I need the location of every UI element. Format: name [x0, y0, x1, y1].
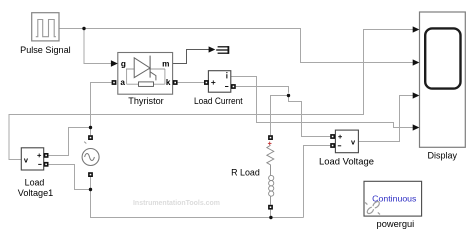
source: AC voltage source [82, 142, 99, 166]
thyristor gate lead [150, 72, 156, 81]
svg-text:powergui: powergui [377, 219, 415, 229]
port: AC source top [88, 135, 93, 140]
thyristor symbol main line [126, 68, 165, 70]
port: Load Voltage - [330, 143, 335, 148]
svg-text:Display: Display [428, 151, 458, 161]
block: Pulse Signal [32, 13, 59, 41]
port: Load Voltage + [330, 134, 335, 139]
thyristor cathode bar [149, 56, 151, 78]
wire: node to R Load top [271, 96, 289, 136]
wire: Load Voltage v output to Display in3 [358, 96, 413, 142]
pin label i [226, 72, 227, 78]
terminator arrow [209, 46, 216, 52]
wire: Load Voltage1 v output to Display in1 [9, 30, 413, 160]
port arrow: Display in2 [413, 59, 420, 65]
svg-text:Load Voltage: Load Voltage [319, 156, 374, 166]
lead between R and L [270, 165, 272, 176]
wire: Load Current - output to node [236, 87, 289, 93]
svg-text:a: a [120, 78, 125, 87]
node: AC bottom junction [89, 188, 92, 191]
svg-text:Load: Load [25, 178, 45, 188]
node: load node junction [287, 94, 290, 97]
thyristor triangle [134, 58, 150, 78]
snubber left stub [126, 69, 128, 84]
inductor coil [269, 175, 274, 196]
snubber right stub [164, 69, 166, 84]
branch: R Load (series RL) [267, 142, 274, 205]
node: rail junction at R Load bottom [269, 216, 272, 219]
wire: Pulse Signal output to junction and on to Display in2 [59, 29, 413, 63]
pin label + [37, 154, 41, 158]
wire: Load Voltage1 - down to AC bottom junction [49, 165, 91, 190]
svg-text:Pulse Signal: Pulse Signal [20, 45, 71, 55]
wire: junction down to thyristor gate [84, 29, 112, 64]
port arrow: thyristor g input [111, 60, 118, 67]
svg-text:m: m [162, 60, 169, 69]
wire: node to Load Voltage + [289, 96, 331, 137]
block: Load Current [208, 71, 230, 93]
red polarity + [268, 142, 272, 146]
wire: thyristor a to AC source top [91, 83, 112, 136]
block: Load Voltage [335, 130, 358, 153]
port: R Load top [268, 135, 273, 140]
wire: thyristor m output to terminator [173, 50, 210, 64]
svg-text:g: g [121, 60, 126, 69]
lead to bottom port [270, 196, 272, 205]
block: Thyristor [118, 53, 173, 95]
resistor zigzag [267, 145, 274, 165]
wire: thyristor k to Load Current + [177, 82, 204, 84]
port: thyristor a [112, 80, 117, 85]
wire: AC source bottom to junction to ground rail [91, 177, 304, 218]
port arrow: Display in4 [413, 124, 420, 130]
wire: Load Current i output to Display in4 [231, 77, 413, 128]
pin label - [225, 86, 228, 88]
port: Load Current - output [231, 84, 236, 89]
terminator symbol [216, 46, 228, 54]
svg-text:R Load: R Load [231, 168, 260, 178]
port: AC source bottom [88, 172, 93, 177]
polarity tick [84, 142, 86, 144]
port: thyristor k [173, 80, 178, 85]
snubber bottom wire [127, 83, 139, 85]
block: Display [420, 12, 466, 147]
wire: Load Voltage1 + to junction [49, 128, 91, 156]
svg-text:Voltage1: Voltage1 [18, 188, 54, 198]
svg-text:Load Current: Load Current [194, 96, 243, 106]
block: powergui [364, 181, 422, 216]
pin label + [338, 135, 342, 139]
scope screen [425, 28, 460, 88]
port arrow: Display in3 [413, 92, 420, 98]
port: Load Voltage1 + [44, 153, 49, 158]
node: pulse junction [82, 27, 85, 30]
wire: R Load bottom to rail [270, 210, 272, 218]
pin label - [338, 145, 341, 147]
port: R Load bottom [268, 205, 273, 210]
svg-text:InstrumentationTools.com: InstrumentationTools.com [133, 200, 220, 207]
port: Load Voltage1 - [44, 162, 49, 167]
snubber resistor [139, 82, 154, 87]
port: Load Current + input [204, 80, 209, 85]
broken chain link icon [365, 200, 380, 214]
pin label + [211, 80, 215, 84]
port arrow: Display in1 [413, 26, 420, 32]
pin label - [38, 163, 41, 165]
svg-text:k: k [166, 78, 171, 87]
node: junction a-wire with Load Voltage1 + [89, 126, 92, 129]
wire: Load Voltage - from rail up to port [304, 146, 331, 218]
svg-text:Thyristor: Thyristor [128, 96, 163, 106]
block: Load Voltage1 [21, 148, 43, 170]
